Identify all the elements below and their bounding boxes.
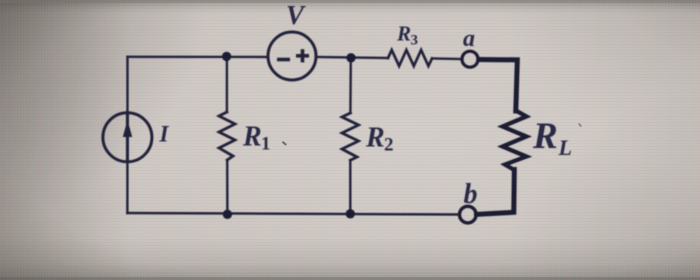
svg-text:R: R xyxy=(242,122,262,153)
node a terminal circle xyxy=(462,51,478,67)
wire R1 branch vertical bottom xyxy=(226,160,229,214)
junction dot top R2 xyxy=(346,53,355,62)
wire R2 branch vertical top xyxy=(349,58,352,113)
junction dot bottom R1 xyxy=(223,210,232,219)
voltage source minus sign xyxy=(277,58,290,62)
current source I circle xyxy=(103,113,152,162)
wire bottom horizontal xyxy=(127,213,459,215)
wire R2 branch vertical bottom xyxy=(349,160,351,214)
wire top (R3 to node a) xyxy=(432,57,461,60)
wire top-left horizontal xyxy=(128,56,269,59)
svg-text:V: V xyxy=(286,0,306,30)
node b terminal circle xyxy=(460,206,477,223)
svg-text:a: a xyxy=(463,26,475,52)
svg-text:I: I xyxy=(159,122,170,147)
svg-text:L: L xyxy=(558,135,572,160)
current source arrow shaft xyxy=(126,113,129,162)
svg-text:R: R xyxy=(365,123,385,154)
load resistor RL xyxy=(503,111,527,171)
wire left vertical xyxy=(126,57,128,213)
resistor R2 xyxy=(342,113,359,160)
current source arrowhead xyxy=(123,120,132,137)
svg-text:b: b xyxy=(464,179,478,210)
voltage source V circle xyxy=(268,32,316,80)
wire top mid (V source to R3) xyxy=(316,57,388,58)
svg-text:2: 2 xyxy=(384,135,394,156)
dust speck right of RL xyxy=(578,123,582,127)
svg-text:3: 3 xyxy=(411,33,419,49)
svg-text:R: R xyxy=(396,22,411,46)
voltage source plus sign xyxy=(296,49,309,62)
resistor R1 xyxy=(219,112,235,160)
thick wire: RL down to bottom-right corner to node b xyxy=(477,170,515,215)
svg-text:1: 1 xyxy=(261,134,271,155)
dust speck near R1 label xyxy=(282,141,287,146)
thick wire: node a to top-right corner and down to RL xyxy=(479,60,518,112)
svg-text:R: R xyxy=(532,116,558,157)
junction dot bottom R2 xyxy=(346,209,355,218)
junction dot top R1 xyxy=(222,52,231,61)
resistor R3 xyxy=(388,50,432,66)
wire R1 branch vertical top xyxy=(226,56,228,112)
